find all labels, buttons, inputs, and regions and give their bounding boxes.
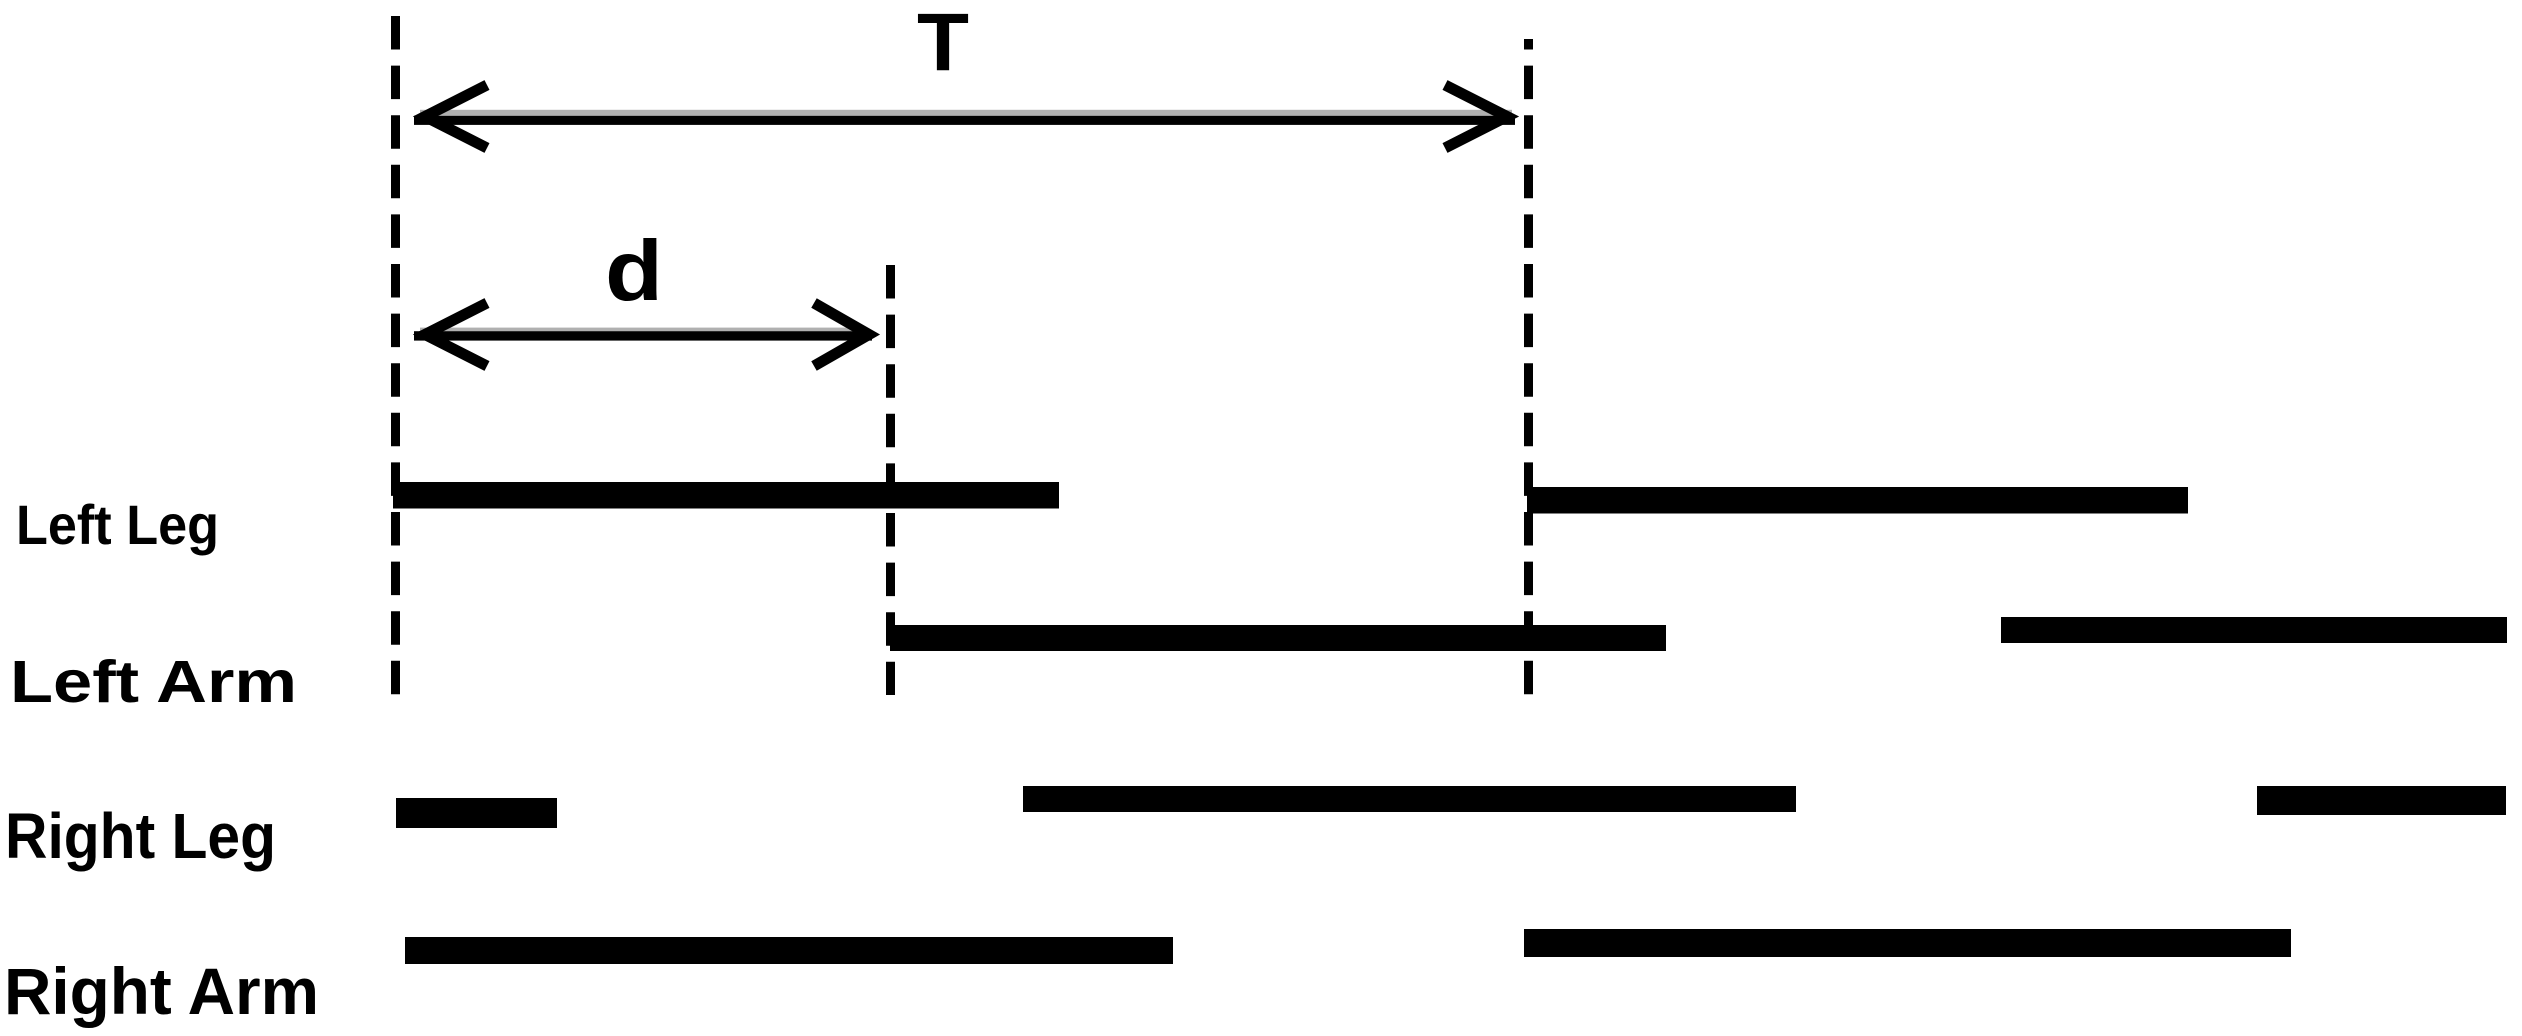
arrow T shaft	[414, 116, 1515, 125]
svg-text:Right Leg: Right Leg	[5, 800, 276, 872]
svg-text:Left Leg: Left Leg	[16, 493, 219, 556]
bar Right Arm swing 1	[405, 937, 1173, 964]
arrow T shaft gray top edge	[420, 110, 1512, 116]
bar Left Arm swing 2	[2001, 617, 2507, 643]
bar Right Leg stance 2	[1023, 786, 1796, 812]
dashed line t0 (left reference line)	[391, 16, 400, 695]
arrow d left head	[425, 303, 487, 366]
svg-text:d: d	[605, 224, 663, 319]
svg-text:Left Arm: Left Arm	[10, 649, 297, 715]
arrow d right head	[814, 303, 869, 366]
bar Right Leg stance 3	[2257, 786, 2506, 815]
svg-text:T: T	[917, 0, 969, 88]
dashed line t0+T (right reference line)	[1524, 39, 1533, 702]
bar Right Arm swing 2	[1524, 929, 2291, 957]
arrow d shaft	[414, 331, 872, 340]
bar Right Leg stance 1 (short)	[396, 798, 557, 828]
bar Left Arm swing 1	[890, 625, 1666, 651]
svg-text:Right Arm: Right Arm	[4, 954, 319, 1028]
arrow T left head	[425, 85, 487, 148]
bar Left Leg stance 2	[1527, 487, 2188, 514]
bar Left Leg stance 1	[393, 482, 1059, 509]
dashed line t0+d (middle reference line)	[886, 265, 895, 695]
arrow T right head	[1445, 85, 1507, 148]
arrow d shaft gray top edge	[420, 328, 860, 332]
